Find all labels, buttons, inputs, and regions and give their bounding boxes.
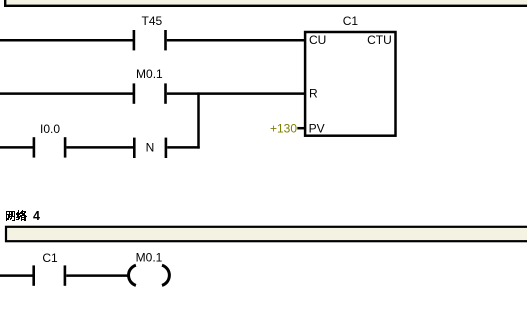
wire rung3 right to junction (167, 146, 200, 149)
svg-text:M0.1: M0.1 (136, 67, 163, 81)
value +130 on PV (270, 121, 297, 135)
coil M0.1 (129, 251, 170, 286)
svg-text:N: N (146, 141, 155, 155)
wire rung1 right to CU (167, 39, 305, 42)
wire rung2 left (0, 92, 133, 95)
wire rung3 middle (66, 146, 133, 149)
svg-text:R: R (309, 87, 318, 101)
wire rung1 left (0, 39, 133, 42)
contact C1 (32, 251, 66, 286)
svg-text:CU: CU (309, 33, 326, 47)
label 网络 4 (network 4 title) (6, 209, 40, 223)
contact T45 (133, 14, 167, 50)
svg-text:C1: C1 (343, 14, 359, 28)
network 3 comment box (cut off at top) (5, 0, 527, 6)
svg-text:+130: +130 (270, 121, 297, 135)
wire rung2 right to R (167, 92, 305, 95)
wire PV stub (297, 127, 305, 130)
wire junction vertical rung3 to rung2 (197, 92, 200, 148)
svg-text:4: 4 (33, 209, 40, 223)
wire rung4 to coil (66, 274, 128, 277)
contact N negative transition (133, 138, 167, 158)
svg-text:M0.1: M0.1 (136, 251, 163, 265)
counter C1 CTU box (305, 14, 395, 136)
svg-text:I0.0: I0.0 (40, 122, 60, 136)
network 4 comment box (6, 227, 527, 241)
contact M0.1 (133, 67, 167, 104)
svg-text:C1: C1 (42, 251, 58, 265)
contact I0.0 (33, 122, 67, 157)
svg-text:T45: T45 (142, 14, 163, 28)
svg-text:PV: PV (309, 122, 325, 136)
wire rung4 left (0, 274, 33, 277)
wire rung3 left (0, 146, 33, 149)
svg-text:CTU: CTU (367, 33, 392, 47)
